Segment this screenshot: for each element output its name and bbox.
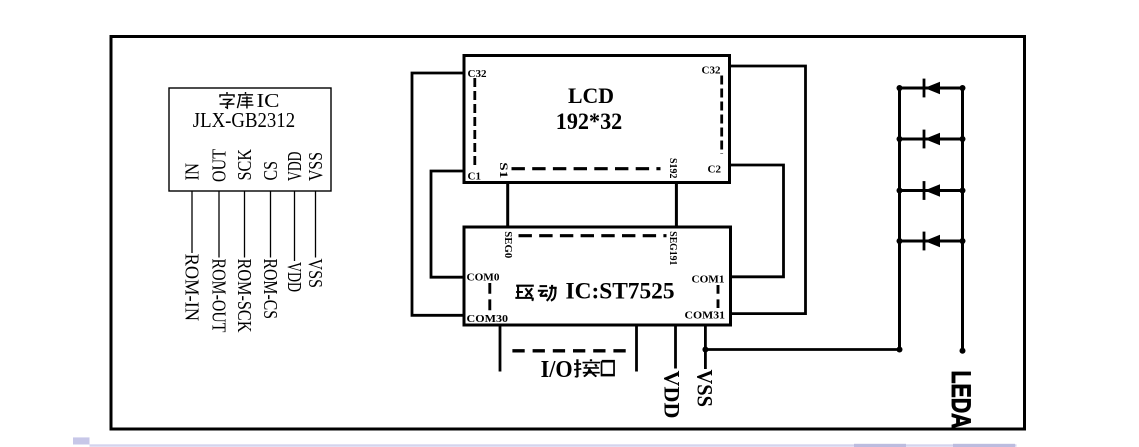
svg-text:SEG0: SEG0 xyxy=(502,231,514,258)
wire pin2 xyxy=(218,191,220,258)
wire C32 to COM30 (left outer) xyxy=(412,73,464,315)
wire VSS to LED rail xyxy=(705,348,899,351)
dashed bus S1..S192 (bottom) xyxy=(512,167,661,170)
junction row1 right xyxy=(960,85,966,91)
svg-text:VSS: VSS xyxy=(305,152,327,181)
svg-text:IN: IN xyxy=(182,163,204,181)
svg-text:LCD: LCD xyxy=(568,83,614,108)
junction row3 left xyxy=(897,188,903,194)
svg-text:VDD: VDD xyxy=(284,152,306,182)
junction row1 left xyxy=(897,85,903,91)
junction row2 left xyxy=(897,136,903,142)
svg-text:I/O: I/O xyxy=(541,357,573,383)
dashed bus SEG0..SEG191 xyxy=(519,234,667,237)
driver IC box xyxy=(464,227,731,325)
wire C1 to COM0 (left inner) xyxy=(431,171,464,277)
svg-text:VSS: VSS xyxy=(693,370,718,408)
svg-text:VDD: VDD xyxy=(660,371,685,419)
wire pin1 xyxy=(191,191,193,253)
svg-text:JLX-GB2312: JLX-GB2312 xyxy=(193,108,295,132)
wire pin4 xyxy=(270,191,272,258)
svg-text:OUT: OUT xyxy=(209,149,231,182)
wire LED row 1 xyxy=(900,87,963,90)
wire S1 to SEG0 xyxy=(506,183,509,228)
wire I/O right xyxy=(635,325,638,372)
svg-text:S1: S1 xyxy=(497,162,509,178)
scrollbar track line xyxy=(90,444,1017,446)
label 字库IC xyxy=(220,90,280,112)
LED D4 xyxy=(924,232,940,251)
wire C32 to COM31 (right outer) xyxy=(730,66,806,314)
svg-text:192*32: 192*32 xyxy=(556,109,623,135)
wire pin5 xyxy=(294,191,296,261)
svg-text:ROM-OUT: ROM-OUT xyxy=(207,259,229,333)
scrollbar segment 2 xyxy=(953,444,1015,447)
dashed bus C32..C2 (right) xyxy=(720,76,723,155)
junction row4 left xyxy=(897,238,903,244)
wire LED row 2 xyxy=(900,138,963,141)
wire VDD xyxy=(674,325,677,369)
LED D2 xyxy=(924,130,940,149)
svg-text:C32: C32 xyxy=(468,68,487,80)
svg-text:SEG191: SEG191 xyxy=(667,231,679,265)
wire S192 to SEG191 xyxy=(675,183,678,228)
LCD box xyxy=(464,56,730,183)
svg-text:ROM-IN: ROM-IN xyxy=(180,254,202,322)
svg-text:VSS: VSS xyxy=(304,259,326,289)
wire LED row 4 xyxy=(900,240,963,243)
junction row2 right xyxy=(960,136,966,142)
svg-text:S192: S192 xyxy=(667,158,679,179)
svg-text:SCK: SCK xyxy=(234,149,256,181)
junction row4 right xyxy=(960,238,966,244)
LED cathode rail (left) xyxy=(898,88,901,350)
svg-text:VDD: VDD xyxy=(283,262,305,292)
LED D1 xyxy=(924,79,940,98)
wire LED row 3 xyxy=(900,189,963,192)
dashed bus C32..C1 (left) xyxy=(473,78,476,165)
LED anode rail (right) xyxy=(961,88,964,351)
svg-text:LEDA: LEDA xyxy=(946,371,976,429)
svg-text:ROM-CS: ROM-CS xyxy=(259,259,281,320)
wire VSS xyxy=(704,325,707,369)
wire I/O left xyxy=(499,325,502,372)
svg-text:CS: CS xyxy=(260,161,282,181)
svg-text:COM0: COM0 xyxy=(467,272,501,284)
wire pin3 xyxy=(244,191,246,258)
scrollbar thumb xyxy=(73,437,90,444)
outer border frame xyxy=(111,37,1025,430)
label 驱动 IC:ST7525 xyxy=(515,278,674,304)
svg-text:C1: C1 xyxy=(468,171,481,183)
dashed bus COM1..COM31 xyxy=(717,285,720,308)
svg-text:COM30: COM30 xyxy=(467,313,509,325)
junction VSS xyxy=(702,347,708,353)
terminal dot LEDA xyxy=(960,348,966,354)
wire C2 to COM1 (right inner) xyxy=(730,165,784,277)
scrollbar segment 1 xyxy=(854,444,906,447)
dashed bus I/O xyxy=(512,349,627,352)
junction LED rail / VSS wire xyxy=(897,347,903,353)
font ROM IC box xyxy=(169,88,331,191)
svg-text:ROM-SCK: ROM-SCK xyxy=(233,259,255,333)
svg-text:C32: C32 xyxy=(702,65,721,77)
svg-text:COM31: COM31 xyxy=(685,310,726,322)
svg-text:C2: C2 xyxy=(708,164,722,176)
LED D3 xyxy=(924,181,940,200)
label I/O接口 xyxy=(541,357,614,383)
svg-text:COM1: COM1 xyxy=(692,274,725,286)
svg-text:IC:ST7525: IC:ST7525 xyxy=(566,278,675,304)
dashed bus COM0..COM30 xyxy=(488,283,491,310)
junction row3 right xyxy=(960,188,966,194)
wire pin6 xyxy=(315,191,317,258)
